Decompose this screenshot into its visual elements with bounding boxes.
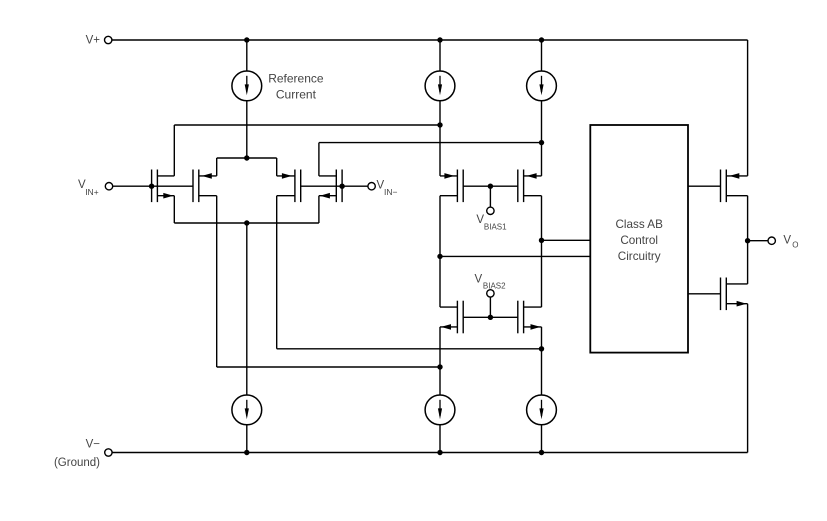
svg-text:V+: V+ bbox=[86, 35, 101, 47]
svg-text:V: V bbox=[783, 235, 791, 247]
svg-text:IN−: IN− bbox=[384, 187, 398, 197]
svg-text:Control: Control bbox=[620, 234, 658, 247]
svg-text:IN+: IN+ bbox=[85, 187, 99, 197]
svg-text:V: V bbox=[475, 274, 483, 286]
svg-text:Class AB: Class AB bbox=[615, 218, 663, 231]
svg-text:BIAS2: BIAS2 bbox=[483, 281, 506, 290]
svg-text:O: O bbox=[792, 241, 798, 250]
svg-text:V−: V− bbox=[86, 438, 101, 450]
svg-text:Reference: Reference bbox=[268, 71, 324, 85]
svg-text:(Ground): (Ground) bbox=[54, 457, 100, 469]
svg-text:Circuitry: Circuitry bbox=[618, 250, 661, 263]
svg-text:BIAS1: BIAS1 bbox=[484, 222, 507, 231]
svg-text:Current: Current bbox=[276, 88, 317, 102]
